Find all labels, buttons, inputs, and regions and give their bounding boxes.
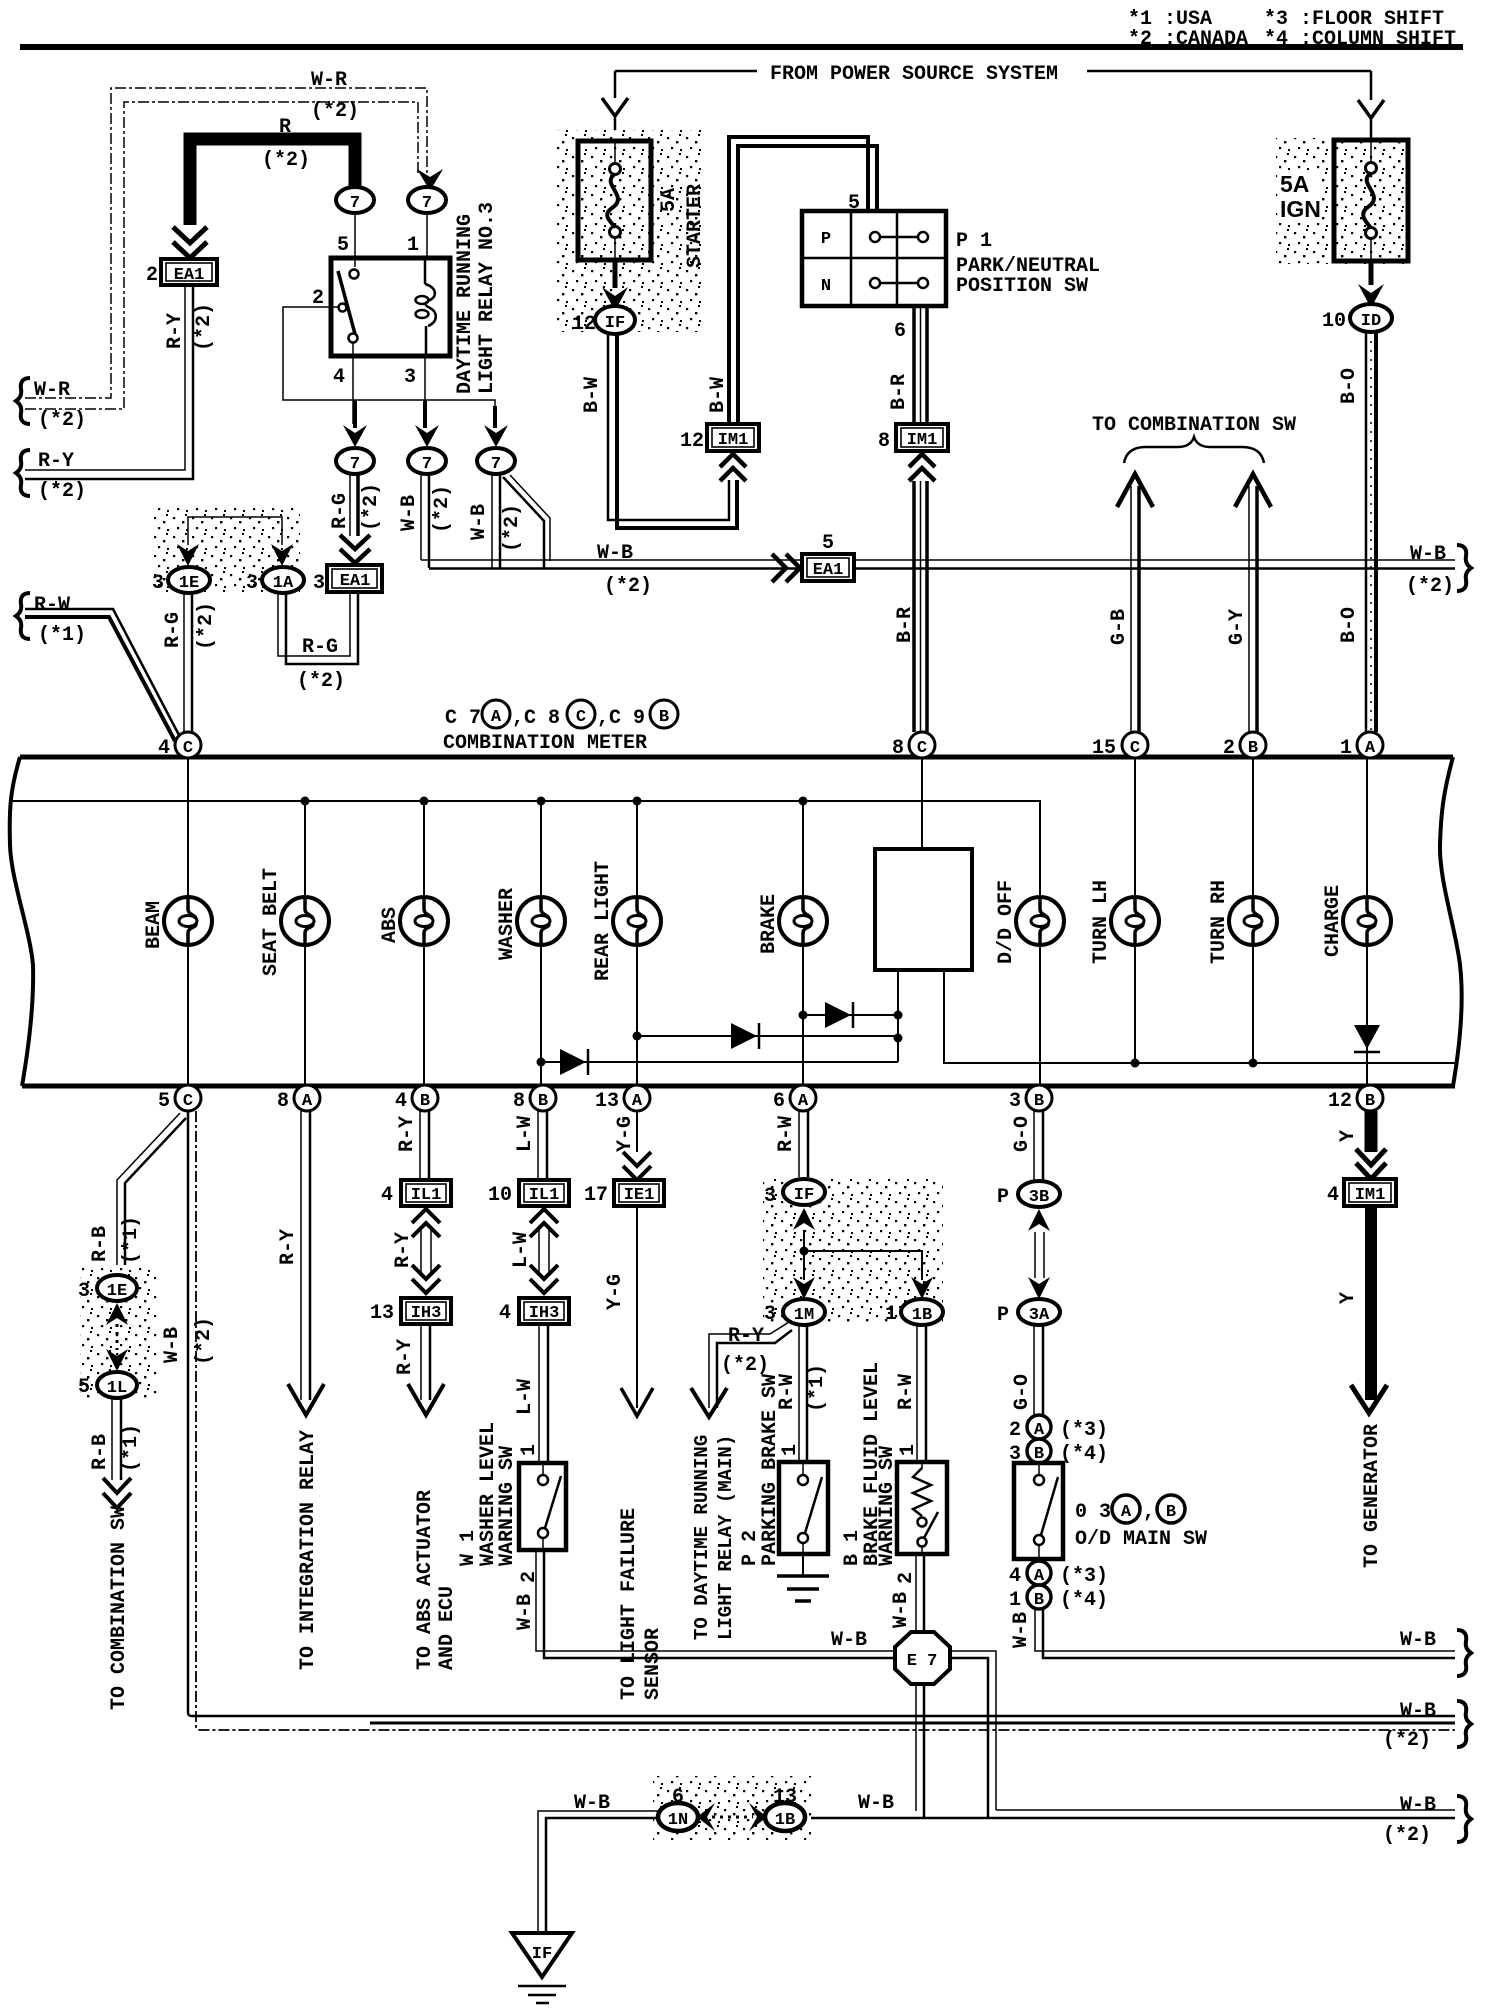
arrow R-Y down abs — [408, 1384, 444, 1415]
junction block IM1 pin 4 — [1344, 1179, 1396, 1206]
svg-text:IH3: IH3 — [411, 1304, 442, 1323]
svg-text:D/D OFF: D/D OFF — [995, 880, 1018, 964]
svg-text:7: 7 — [350, 194, 360, 213]
wire Y-G from IE1 down — [636, 1206, 638, 1408]
svg-text:R-G: R-G — [162, 612, 185, 648]
svg-text:(*2): (*2) — [262, 149, 310, 172]
wire W-B from 7d down — [420, 474, 422, 560]
svg-text:(*1): (*1) — [38, 624, 86, 647]
arrow into connector IF — [613, 262, 618, 288]
svg-text:Y: Y — [1337, 1292, 1360, 1304]
connector 1N — [658, 1803, 698, 1831]
arrow R-Y down — [288, 1384, 324, 1415]
svg-text:W-B: W-B — [1400, 1700, 1436, 1723]
svg-text:(*1): (*1) — [806, 1364, 829, 1412]
svg-text:G-B: G-B — [1108, 609, 1131, 645]
arrow down into 1M — [793, 1277, 815, 1299]
svg-text:A: A — [1365, 739, 1376, 758]
svg-text:EA1: EA1 — [813, 561, 844, 580]
svg-text:(*2): (*2) — [193, 1317, 216, 1365]
ground under parking brake SW — [802, 1554, 804, 1576]
diode line brake to box — [803, 1014, 898, 1016]
svg-text:B: B — [659, 708, 669, 727]
lamp TURN RH — [1229, 897, 1277, 945]
svg-text:R-Y: R-Y — [164, 313, 187, 349]
wire R-B diagonal from 5C — [117, 1113, 180, 1265]
svg-text:IE1: IE1 — [624, 1186, 655, 1205]
svg-text:R-G: R-G — [329, 493, 352, 529]
arrow chevrons into EA1-5 — [772, 554, 800, 582]
wire G-O from 3A down — [1033, 1325, 1035, 1415]
brace W-R left — [16, 378, 30, 424]
arrow down into 3A — [1028, 1277, 1050, 1299]
wire Y thick from 12B to IM1-4 — [1365, 1111, 1378, 1152]
svg-text:13: 13 — [595, 1090, 619, 1113]
svg-text:W-B: W-B — [858, 1792, 894, 1815]
svg-text:1: 1 — [1340, 737, 1352, 760]
svg-text:4: 4 — [395, 1090, 407, 1113]
wire W-B horizontal to EA1-5 — [421, 559, 1455, 561]
arrow down into 1B — [911, 1277, 933, 1299]
svg-text:R-B: R-B — [89, 1434, 112, 1470]
svg-text:1: 1 — [897, 1444, 920, 1456]
svg-text:R-Y: R-Y — [392, 1232, 415, 1268]
svg-text:2: 2 — [895, 1572, 918, 1584]
svg-text:IGN: IGN — [1280, 196, 1321, 222]
wire E7 bottom down — [915, 1684, 917, 1811]
wire G-O from 3B terminal to connector 3B — [1033, 1111, 1035, 1182]
wire relay pin3 down — [424, 356, 426, 424]
svg-text:W-B: W-B — [574, 1792, 610, 1815]
svg-text:2: 2 — [146, 264, 158, 287]
svg-text:Y: Y — [1337, 1130, 1360, 1142]
svg-text:6: 6 — [773, 1090, 785, 1113]
svg-text:R-G: R-G — [302, 636, 338, 659]
svg-text:TO GENERATOR: TO GENERATOR — [1361, 1424, 1384, 1568]
svg-text:7: 7 — [422, 455, 432, 474]
arrow down into 1L — [106, 1349, 128, 1371]
arrow into connector 7e — [493, 406, 497, 428]
internal box (bulb check relay) — [875, 849, 972, 970]
svg-text:4: 4 — [158, 737, 170, 760]
svg-text:3: 3 — [764, 1185, 776, 1208]
svg-text:1N: 1N — [668, 1811, 688, 1830]
svg-text:PARKING BRAKE SW: PARKING BRAKE SW — [759, 1374, 782, 1566]
brace W-B right — [1457, 545, 1471, 591]
stipple shading around IGN fuse — [1276, 138, 1410, 264]
svg-text:(*2): (*2) — [195, 602, 218, 650]
relay coil — [425, 258, 436, 356]
svg-text:1E: 1E — [107, 1282, 127, 1301]
wire Y thick from IM1-4 to generator — [1365, 1206, 1377, 1400]
wire W-R loop (Canada) — [25, 88, 427, 398]
wire R-G from 1E down to meter 4C — [183, 593, 185, 734]
wire B-W pi from IM1-12 to P1 pin5 — [729, 137, 868, 424]
svg-text:B: B — [1034, 1591, 1044, 1610]
wire R-W from 6A to IF — [798, 1111, 800, 1179]
stipple shading around 1N 1B — [653, 1776, 811, 1840]
svg-text:,C 8: ,C 8 — [512, 707, 560, 730]
svg-text:5: 5 — [78, 1376, 90, 1399]
svg-text:1M: 1M — [794, 1306, 814, 1325]
junction block IE1 — [614, 1180, 664, 1206]
arrow chevrons Y down — [1356, 1149, 1386, 1179]
wire R-W diagonal to meter 4C — [25, 609, 180, 737]
svg-text:TO LIGHT FAILURE: TO LIGHT FAILURE — [618, 1508, 641, 1700]
label 5A IGN — [1279, 172, 1321, 220]
lamp SEAT BELT — [281, 897, 329, 945]
svg-text:WASHER: WASHER — [496, 888, 519, 960]
svg-text:WARNING SW: WARNING SW — [496, 1446, 519, 1566]
svg-text:B: B — [420, 1092, 430, 1111]
arrow chevrons down R-B — [103, 1478, 131, 1508]
wire R thick (Canada) to EA1 and relay — [190, 139, 355, 225]
svg-text:C: C — [183, 1092, 193, 1111]
svg-text:1E: 1E — [179, 574, 199, 593]
svg-text:3A: 3A — [1029, 1306, 1050, 1325]
svg-text:(*2): (*2) — [721, 1354, 769, 1377]
junction dots lower — [894, 1011, 903, 1020]
svg-text:5A: 5A — [658, 188, 681, 212]
wire R-W from 1M to parking brake SW — [798, 1325, 800, 1462]
svg-text:8: 8 — [892, 737, 904, 760]
junction block EA1 pin 5 — [802, 554, 854, 581]
connector 1M — [783, 1299, 825, 1325]
wire R-Y (*2) from 1M to daytime relay — [709, 1322, 789, 1408]
svg-text:CHARGE: CHARGE — [1322, 885, 1345, 957]
svg-text:LIGHT RELAY NO.3: LIGHT RELAY NO.3 — [476, 202, 499, 394]
dotted link 1E to 1L — [116, 1324, 119, 1350]
connector 1E (lower) — [97, 1275, 137, 1301]
svg-text:B-O: B-O — [1338, 368, 1361, 404]
svg-text:LIGHT RELAY (MAIN): LIGHT RELAY (MAIN) — [715, 1435, 737, 1640]
svg-text:TURN LH: TURN LH — [1090, 880, 1113, 964]
svg-text:3: 3 — [152, 572, 164, 595]
svg-text:G-Y: G-Y — [1226, 609, 1249, 645]
connector 7 (d) — [408, 448, 446, 474]
arrow Y-G down — [621, 1388, 653, 1416]
svg-text:IM1: IM1 — [907, 431, 938, 450]
svg-text:REAR LIGHT: REAR LIGHT — [592, 861, 615, 981]
svg-text:B: B — [1034, 1092, 1044, 1111]
wire pin5 into relay — [354, 213, 356, 258]
dotted link 1N to 1B — [712, 1816, 753, 1819]
connector 3A — [1018, 1299, 1060, 1325]
stipple shading around 1E 1L — [80, 1268, 158, 1400]
svg-text:L-W: L-W — [510, 1232, 533, 1268]
svg-text:C 7: C 7 — [445, 707, 481, 730]
svg-text:R-W: R-W — [775, 1116, 798, 1152]
arrow G-B up to combination sw — [1117, 474, 1153, 507]
svg-text:B: B — [538, 1092, 548, 1111]
svg-text:7: 7 — [350, 455, 360, 474]
connector 7 (c) — [336, 448, 374, 474]
lamp column wires — [187, 758, 189, 1085]
svg-text:B-O: B-O — [1338, 607, 1361, 643]
connector 3B — [1018, 1181, 1060, 1207]
lamp D/D OFF — [1016, 897, 1064, 945]
svg-text:(*2): (*2) — [431, 485, 454, 533]
svg-text:R-Y: R-Y — [728, 1325, 764, 1348]
svg-text:R: R — [279, 116, 291, 139]
svg-text:IH3: IH3 — [529, 1304, 560, 1323]
svg-text:TO INTEGRATION RELAY: TO INTEGRATION RELAY — [297, 1430, 320, 1670]
diode charge column — [1354, 1025, 1380, 1049]
arrow into starter fuse — [602, 98, 628, 116]
svg-text:WARNING SW: WARNING SW — [876, 1446, 899, 1566]
svg-text:ID: ID — [1361, 312, 1381, 331]
svg-text:R-W: R-W — [34, 594, 70, 617]
svg-text:4: 4 — [333, 366, 345, 389]
svg-text:B-W: B-W — [581, 377, 604, 413]
svg-text:G-O: G-O — [1011, 1374, 1034, 1410]
wire R-Y from IH3 down — [420, 1324, 422, 1400]
svg-text:W-R: W-R — [311, 69, 347, 92]
diode line washer to box — [541, 1061, 898, 1063]
svg-text:R-Y: R-Y — [394, 1339, 417, 1375]
svg-text:W-B: W-B — [597, 542, 633, 565]
svg-text:COMBINATION METER: COMBINATION METER — [443, 732, 647, 755]
svg-text:A: A — [1121, 1503, 1132, 1522]
arrow G-Y up to combination sw — [1235, 474, 1271, 507]
svg-text:1B: 1B — [775, 1811, 795, 1830]
svg-text:13: 13 — [370, 1302, 394, 1325]
svg-text:E 7: E 7 — [907, 1652, 938, 1671]
svg-text:(*3): (*3) — [1060, 1565, 1108, 1588]
svg-text:EA1: EA1 — [174, 266, 205, 285]
svg-text:3: 3 — [764, 1303, 776, 1326]
svg-text:B-R: B-R — [894, 607, 917, 643]
svg-text:3: 3 — [313, 572, 325, 595]
svg-text:IL1: IL1 — [529, 1186, 560, 1205]
svg-text:1: 1 — [779, 1444, 802, 1456]
diode line rear light to box — [637, 1035, 898, 1037]
svg-text:BRAKE: BRAKE — [758, 894, 781, 954]
wire W-B diagonal from 7e — [503, 477, 544, 569]
arrow into connector ID — [1369, 262, 1374, 285]
wire pin1 into relay — [426, 213, 428, 258]
svg-text:L-W: L-W — [514, 1379, 537, 1415]
svg-text:3: 3 — [404, 366, 416, 389]
connector IF (starter) — [595, 306, 635, 334]
svg-text:P: P — [997, 1304, 1009, 1327]
svg-text:ABS: ABS — [379, 907, 402, 943]
wire B-R from P1-6 to IM1-8 — [914, 306, 927, 424]
lamp WASHER — [517, 897, 565, 945]
relay daytime running light relay no.3 — [331, 258, 450, 356]
svg-text:FROM POWER SOURCE SYSTEM: FROM POWER SOURCE SYSTEM — [770, 63, 1058, 86]
fuse 5A STARTER — [578, 141, 651, 260]
svg-text:5: 5 — [337, 234, 349, 257]
svg-text:1: 1 — [1009, 1589, 1021, 1612]
svg-text:(*1): (*1) — [120, 1424, 143, 1472]
lamp BRAKE — [779, 897, 827, 945]
svg-text:(*2): (*2) — [1406, 575, 1454, 598]
svg-text:B: B — [1248, 739, 1258, 758]
svg-text:R-B: R-B — [89, 1226, 112, 1262]
junction block IL1 (abs) — [401, 1180, 451, 1206]
svg-text:B: B — [1365, 1092, 1375, 1111]
combination meter right wavy edge — [1440, 757, 1462, 1086]
svg-text:B-R: B-R — [888, 374, 911, 410]
stipple shading around starter fuse — [557, 130, 705, 332]
svg-text:DAYTIME RUNNING: DAYTIME RUNNING — [454, 214, 477, 394]
svg-text:(*3): (*3) — [1060, 1419, 1108, 1442]
switch P1 park/neutral position — [802, 211, 946, 306]
svg-text:G-O: G-O — [1011, 1116, 1034, 1152]
switch O3 O/D main — [1014, 1463, 1063, 1559]
junction block EA1 pin 2 — [161, 259, 217, 285]
svg-text:17: 17 — [584, 1184, 608, 1207]
wire L-W from 8B to IL1 — [537, 1111, 539, 1180]
svg-text:A: A — [302, 1092, 313, 1111]
svg-text:1A: 1A — [273, 574, 294, 593]
svg-text:(*2): (*2) — [38, 409, 86, 432]
svg-text:3: 3 — [246, 572, 258, 595]
svg-text:4: 4 — [381, 1184, 393, 1207]
svg-text:R-Y: R-Y — [38, 450, 74, 473]
connector 1E (upper) — [168, 567, 210, 593]
svg-text:12: 12 — [680, 430, 704, 453]
brace W-B right2 — [1457, 1701, 1471, 1747]
svg-text:R-Y: R-Y — [396, 1116, 419, 1152]
junction block IM1 pin 12 — [707, 424, 759, 451]
junction block EA1 pin 3 — [327, 565, 382, 592]
svg-text:W-B: W-B — [1010, 1612, 1033, 1648]
arrow into 1E — [177, 544, 199, 566]
wire drop to IGN fuse — [1370, 71, 1373, 140]
wire W-B washer SW to E7 — [536, 1550, 895, 1651]
svg-text:POSITION SW: POSITION SW — [956, 275, 1088, 298]
wire drop to starter fuse — [614, 71, 617, 141]
wire B-O from ID to meter 1A — [1365, 332, 1368, 732]
wire R-Y from 8A to integration relay — [300, 1111, 302, 1400]
wire W-B brake fluid SW to E7 — [915, 1554, 917, 1632]
svg-text:12: 12 — [1328, 1090, 1352, 1113]
svg-text:Y-G: Y-G — [614, 1116, 637, 1152]
svg-text:W-B: W-B — [468, 504, 491, 540]
box bottom-left wire — [897, 970, 899, 1062]
wire R-B from 1L down — [111, 1398, 113, 1480]
svg-text:(*2): (*2) — [297, 670, 345, 693]
svg-text:W-B: W-B — [890, 1592, 913, 1628]
combination meter top border — [20, 755, 1453, 760]
svg-text:8: 8 — [878, 430, 890, 453]
svg-text:W-R: W-R — [34, 379, 70, 402]
svg-text:(*2): (*2) — [604, 575, 652, 598]
arrow chevrons into IM1-12 — [720, 454, 746, 481]
arrow chevrons into EA1-3 — [340, 535, 370, 563]
svg-text:A: A — [1034, 1567, 1045, 1586]
switch P2 parking brake — [779, 1462, 828, 1554]
wire R-G from 7c to EA1-3 — [349, 474, 351, 536]
lamp ABS — [400, 897, 448, 945]
arrow into 1A — [271, 544, 293, 566]
brace R-Y left — [16, 450, 30, 496]
svg-text:IM1: IM1 — [718, 431, 749, 450]
junction block IL1 (washer) — [519, 1180, 569, 1206]
wire relay pin4 down — [352, 356, 354, 424]
wire power source header left segment — [615, 70, 757, 73]
svg-text:W-B: W-B — [398, 495, 421, 531]
wire bottom W-B bus from 1B to right — [996, 1809, 1455, 1811]
terminal A (*3) upper — [1027, 1415, 1051, 1439]
svg-text:(*2): (*2) — [193, 303, 216, 351]
svg-text:IM1: IM1 — [1355, 1186, 1386, 1205]
svg-text:N: N — [821, 277, 831, 296]
brace W-B right1 — [1457, 1630, 1471, 1676]
svg-text:C: C — [917, 739, 927, 758]
arrow up into 1E — [106, 1303, 128, 1325]
wire relay pin2 reroute — [283, 307, 495, 424]
terminal A (*3) lower — [1027, 1561, 1051, 1585]
top border rule — [20, 44, 1463, 50]
wire Y-G from 13A to IE1 — [636, 1111, 638, 1152]
stipple shading around 1E 1A — [152, 505, 300, 593]
svg-text:B-W: B-W — [707, 377, 730, 413]
svg-text:10: 10 — [488, 1184, 512, 1207]
svg-text:W-B: W-B — [514, 1594, 537, 1630]
svg-text:TO COMBINATION SW: TO COMBINATION SW — [108, 1506, 131, 1710]
svg-text:1: 1 — [407, 234, 419, 257]
svg-text:R-Y: R-Y — [277, 1229, 300, 1265]
svg-text:0 3: 0 3 — [1075, 1501, 1111, 1524]
svg-text:6: 6 — [894, 320, 906, 343]
arrow right into 1B — [749, 1803, 767, 1831]
wire link 3B to 3A — [1035, 1232, 1044, 1278]
junction dots on bus — [301, 797, 310, 806]
svg-text:W-B: W-B — [1400, 1794, 1436, 1817]
wire W-B from O/D SW to right — [1035, 1609, 1455, 1651]
svg-text:IL1: IL1 — [411, 1186, 442, 1205]
svg-text:W-B: W-B — [831, 1629, 867, 1652]
wire B-W from IF to IM1-12 — [608, 334, 729, 520]
connector 1A — [262, 567, 304, 593]
connector IF (brake) — [783, 1179, 825, 1205]
double arrow IL1 to IH3 washer — [530, 1209, 558, 1237]
lamp REAR LIGHT — [613, 897, 661, 945]
arrow into connector 7d — [423, 400, 427, 428]
svg-text:(*4): (*4) — [1060, 1589, 1108, 1612]
svg-text:4: 4 — [1009, 1565, 1021, 1588]
svg-text:(*2): (*2) — [311, 100, 359, 123]
svg-text:TO DAYTIME RUNNING: TO DAYTIME RUNNING — [691, 1435, 713, 1640]
double arrow IL1 to IH3 — [412, 1209, 440, 1237]
svg-text:(*2): (*2) — [360, 483, 383, 531]
fuse 5A IGN — [1334, 140, 1408, 261]
svg-text:,C 9: ,C 9 — [597, 707, 645, 730]
svg-text:W-B: W-B — [1400, 1629, 1436, 1652]
svg-text:(*2): (*2) — [1383, 1729, 1431, 1752]
junction block IM1 pin 8 — [896, 424, 948, 451]
pin 2 wire exits relay left — [331, 306, 339, 308]
svg-text:STARTER: STARTER — [684, 184, 707, 268]
arrow up into 3B — [1028, 1209, 1050, 1231]
junction block IH3 (washer) — [519, 1298, 569, 1324]
brace over arrows — [1124, 437, 1264, 463]
svg-text:3B: 3B — [1029, 1188, 1049, 1207]
wire R-G U from 1A to EA1-3 — [278, 592, 350, 656]
connector 1L — [97, 1372, 137, 1398]
svg-text:1: 1 — [518, 1444, 541, 1456]
svg-text:P: P — [821, 230, 831, 249]
svg-text:4: 4 — [1327, 1184, 1339, 1207]
svg-text:1L: 1L — [107, 1379, 127, 1398]
svg-text:W-B: W-B — [161, 1327, 184, 1363]
connector 7 (e) — [477, 448, 515, 474]
wire E7 right then down to bottom bus — [950, 1651, 996, 1810]
svg-text:BEAM: BEAM — [143, 901, 166, 949]
